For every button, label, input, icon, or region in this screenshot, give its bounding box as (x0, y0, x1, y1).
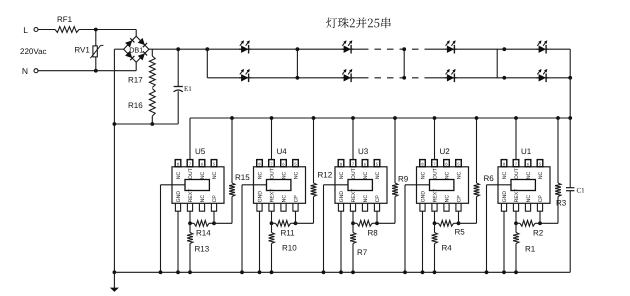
svg-text:OUT: OUT (269, 167, 275, 179)
LED D3b (bottom row) (344, 74, 351, 81)
node: U1 REXT junction (514, 221, 518, 225)
label: title 灯珠2并25串 (326, 17, 391, 28)
U1 pin 3 stub (bottom, NC) (525, 203, 530, 211)
node: U4 REXT junction (270, 221, 274, 225)
svg-text:NC: NC (456, 171, 462, 179)
node ties on LED rails (296, 47, 300, 51)
svg-text:8: 8 (503, 162, 506, 167)
svg-text:REXT: REXT (269, 188, 275, 203)
node: U3 CP junction (375, 221, 379, 225)
svg-text:NC: NC (212, 171, 218, 179)
wire U3 CP pin down (376, 211, 378, 223)
U2 pin 6 stub (top, NC) (444, 160, 450, 167)
svg-text:GND: GND (339, 191, 345, 203)
svg-text:R12: R12 (318, 171, 333, 180)
svg-text:7: 7 (270, 162, 273, 167)
svg-text:GND: GND (502, 191, 508, 203)
wire U1 REXT pin down (515, 211, 517, 223)
svg-text:NC: NC (200, 195, 206, 203)
svg-text:C1: C1 (577, 186, 586, 194)
node: U2 CP junction (457, 221, 461, 225)
U3 pin 5 stub (top, NC) (374, 160, 380, 167)
bridge diode D-left-bottom (anode left vertex, cathode bottom) (125, 51, 132, 58)
svg-text:7: 7 (189, 162, 192, 167)
node: DC- / R16-E1 return junction (113, 122, 117, 126)
wire U4 GND pin to ground rail (259, 211, 261, 272)
wire U4 REXT pin down (271, 211, 273, 223)
svg-text:OUT: OUT (432, 167, 438, 179)
svg-text:NC: NC (444, 171, 450, 179)
U5 pin 3 stub (bottom, NC) (199, 203, 204, 211)
svg-text:NC: NC (444, 195, 450, 203)
wire U3 GND pin to ground rail (340, 211, 342, 272)
wire U2 GND pin to ground rail (422, 211, 424, 272)
wire LED bottom rail (dashed middle) (362, 77, 427, 79)
node: ground rail left end (113, 270, 117, 274)
wire: LED chain vertical tie at x=497.2 (496, 49, 498, 78)
wire U1 REXT feedback (inner box to left drop) (487, 184, 512, 186)
wire LED bottom rail (solid right part) (427, 77, 570, 79)
svg-text:5: 5 (213, 162, 216, 167)
U3 pin 2 stub (bottom, REXT) (350, 203, 355, 211)
resistor R16 (149, 89, 155, 117)
U2 pin 4 stub (bottom, CP) (456, 203, 461, 211)
svg-text:CP: CP (456, 195, 462, 203)
resistor R14 (190, 222, 194, 224)
node: U3 REXT junction (351, 221, 355, 225)
svg-text:R10: R10 (282, 244, 297, 253)
svg-text:8: 8 (177, 162, 180, 167)
svg-text:OUT: OUT (514, 167, 520, 179)
node: U2 REXT junction (433, 221, 437, 225)
node: R15 top on rail (230, 116, 234, 120)
wire U2 OUT pin to rail (434, 118, 436, 160)
svg-text:L: L (23, 25, 28, 35)
svg-text:7: 7 (352, 162, 355, 167)
U2 pin 1 stub (bottom, GND) (420, 203, 425, 211)
svg-text:R8: R8 (368, 229, 379, 238)
capacitor E1 (electrolytic bulk cap) (177, 49, 179, 86)
resistor R5 (435, 222, 439, 224)
node: U1 OUT on rail (514, 116, 518, 120)
U5 pin 7 stub (top, OUT) (187, 160, 193, 167)
wire U3 REXT pin down (352, 211, 354, 223)
U1 pin 6 stub (top, NC) (525, 160, 531, 167)
svg-text:U5: U5 (195, 147, 206, 156)
node: RV1 bottom junction (94, 69, 98, 73)
resistor R15 (to OUT rail) (214, 222, 232, 224)
svg-text:OUT: OUT (188, 167, 194, 179)
svg-text:8: 8 (340, 162, 343, 167)
svg-text:R7: R7 (357, 248, 368, 257)
node: R6 top on rail (475, 116, 479, 120)
op-amp / LED-driver IC U1 (498, 167, 550, 204)
U5 pin 4 stub (bottom, CP) (211, 203, 216, 211)
svg-text:NC: NC (339, 171, 345, 179)
node: right drop joins OUT rail (568, 116, 572, 120)
resistor R7 (REXT to ground) (352, 223, 354, 232)
svg-text:NC: NC (420, 171, 426, 179)
wire U5 OUT pin to rail (189, 118, 191, 160)
svg-text:5: 5 (457, 162, 460, 167)
svg-text:RV1: RV1 (74, 46, 90, 55)
wire N to bridge bottom (38, 70, 136, 72)
wire U1 CP pin down (539, 211, 541, 223)
LED D1a (top row) (241, 46, 248, 53)
wire U4 OUT pin to rail (271, 118, 273, 160)
U2 pin 2 stub (bottom, REXT) (432, 203, 437, 211)
svg-text:REXT: REXT (432, 188, 438, 203)
resistor R3 (to OUT rail) (540, 222, 558, 224)
LED D1b (bottom row) (241, 74, 248, 81)
U3 pin 8 stub (top, NC) (338, 160, 344, 167)
wire U4 REXT feedback (inner box to left drop) (242, 184, 267, 186)
svg-text:N: N (22, 66, 28, 76)
svg-text:220Vac: 220Vac (20, 47, 47, 56)
op-amp / LED-driver IC U5 (172, 167, 224, 204)
svg-text:7: 7 (515, 162, 518, 167)
node: R10 bottom on ground rail (270, 270, 274, 274)
wire L to RF1 (38, 29, 55, 31)
U3 pin 7 stub (top, OUT) (350, 160, 356, 167)
svg-text:R13: R13 (195, 245, 210, 254)
U2 pin 5 stub (top, NC) (456, 160, 462, 167)
wire C1 column lower (569, 191, 571, 272)
svg-text:NC: NC (281, 195, 287, 203)
node: U1 CP junction (538, 221, 542, 225)
svg-text:NC: NC (363, 195, 369, 203)
bridge rectifier DB1 (124, 36, 149, 62)
svg-text:NC: NC (200, 171, 206, 179)
svg-text:6: 6 (527, 162, 530, 167)
U4 pin 1 stub (bottom, GND) (257, 203, 262, 211)
LED D5b (bottom row) (447, 74, 454, 81)
op-amp / LED-driver IC U3 (335, 167, 387, 204)
wire U5 CP pin down (213, 211, 215, 223)
U4 pin 7 stub (top, OUT) (269, 160, 275, 167)
svg-text:NC: NC (281, 171, 287, 179)
node: U4 OUT on rail (270, 116, 274, 120)
wire U2 REXT feedback (inner box to left drop) (405, 184, 430, 186)
node: R3 top on rail (556, 116, 560, 120)
U1 pin 8 stub (top, NC) (501, 160, 507, 167)
resistor RF1 (fuse resistor) (55, 27, 79, 33)
wire LED chain right end down (569, 49, 571, 78)
U2 pin 8 stub (top, NC) (420, 160, 426, 167)
LED D3a (top row) (344, 46, 351, 53)
U5 pin 8 stub (top, NC) (175, 160, 181, 167)
wire U1 OUT pin to rail (515, 118, 517, 160)
svg-text:U1: U1 (521, 147, 532, 156)
U3 pin 1 stub (bottom, GND) (338, 203, 343, 211)
U5 pin 2 stub (bottom, REXT) (187, 203, 192, 211)
wire bridge DC+ (right vertex) to LED chain (149, 48, 207, 50)
wire LED top rail (solid left part) (207, 48, 362, 50)
node: E1 top junction (176, 47, 180, 51)
node: U2 OUT on rail (433, 116, 437, 120)
node: U3 OUT on rail (351, 116, 355, 120)
node: R13 bottom on ground rail (188, 270, 192, 274)
svg-text:NC: NC (375, 171, 381, 179)
svg-text:U3: U3 (358, 147, 369, 156)
op-amp / LED-driver IC U2 (417, 167, 469, 204)
wire U5 REXT feedback (inner box to left drop) (161, 184, 186, 186)
svg-text:U4: U4 (277, 147, 288, 156)
resistor R8 (353, 222, 357, 224)
node: LED chain start junction (205, 47, 209, 51)
resistor R4 (REXT to ground) (434, 223, 436, 232)
svg-text:R4: R4 (442, 244, 453, 253)
wire U3 REXT feedback (inner box to left drop) (324, 184, 349, 186)
svg-text:R15: R15 (235, 173, 250, 182)
wire U2 REXT pin down (434, 211, 436, 223)
svg-text:5: 5 (376, 162, 379, 167)
wire U5 GND pin to ground rail (177, 211, 179, 272)
svg-text:CP: CP (375, 195, 381, 203)
resistor R12 (to OUT rail) (296, 222, 314, 224)
capacitor C1 (566, 187, 574, 189)
U4 pin 2 stub (bottom, REXT) (269, 203, 274, 211)
U3 pin 6 stub (top, NC) (362, 160, 368, 167)
svg-text:OUT: OUT (351, 167, 357, 179)
U4 pin 6 stub (top, NC) (281, 160, 287, 167)
node N (neutral input terminal) (34, 69, 38, 73)
wire C1 column upper (569, 118, 571, 187)
LED D7a (top row) (539, 46, 546, 53)
wire U3 OUT pin to rail (352, 118, 354, 160)
svg-text:6: 6 (282, 162, 285, 167)
node: R1 bottom on ground rail (514, 270, 518, 274)
U1 pin 7 stub (top, OUT) (513, 160, 519, 167)
resistor R2 (516, 222, 520, 224)
resistor R11 (272, 222, 276, 224)
svg-text:NC: NC (502, 171, 508, 179)
wire R16 bottom (151, 116, 153, 124)
svg-text:REXT: REXT (514, 188, 520, 203)
ground symbol (113, 272, 115, 288)
svg-text:R14: R14 (196, 229, 211, 238)
wire: LED chain vertical tie at x=207.3 (206, 49, 208, 78)
svg-text:R11: R11 (281, 229, 296, 238)
wire U1 GND pin to ground rail (503, 211, 505, 272)
bridge diode D-bottom-right (anode bottom vertex, cathode right) (138, 53, 145, 60)
node: R9 top on rail (393, 116, 397, 120)
node: U4 CP junction (294, 221, 298, 225)
svg-text:GND: GND (176, 191, 182, 203)
svg-text:GND: GND (420, 191, 426, 203)
U1 pin 5 stub (top, NC) (537, 160, 543, 167)
svg-text:R6: R6 (484, 174, 495, 183)
svg-text:8: 8 (258, 162, 261, 167)
wire U4 CP pin down (295, 211, 297, 223)
U1 pin 4 stub (bottom, CP) (537, 203, 542, 211)
LED D7b (bottom row) (539, 74, 546, 81)
U2 pin 3 stub (bottom, NC) (444, 203, 449, 211)
wire DC- down to ground rail (113, 124, 115, 272)
svg-text:E1: E1 (184, 85, 192, 93)
resistor R1 (REXT to ground) (515, 223, 517, 232)
svg-text:R16: R16 (128, 101, 143, 110)
resistor R6 (to OUT rail) (459, 222, 477, 224)
node: R4 bottom on ground rail (433, 270, 437, 274)
wire return rail (R16/E1 bottoms to DC-) (114, 123, 178, 125)
svg-text:NC: NC (176, 171, 182, 179)
svg-text:NC: NC (526, 195, 532, 203)
LED D5a (top row) (447, 46, 454, 53)
U3 pin 4 stub (bottom, CP) (374, 203, 379, 211)
U1 pin 2 stub (bottom, REXT) (513, 203, 518, 211)
op-amp / LED-driver IC U4 (254, 167, 306, 204)
svg-text:DB1: DB1 (129, 46, 143, 55)
U4 pin 8 stub (top, NC) (257, 160, 263, 167)
resistor R17 (149, 56, 155, 88)
U5 pin 5 stub (top, NC) (211, 160, 217, 167)
svg-text:R2: R2 (533, 229, 544, 238)
svg-text:CP: CP (538, 195, 544, 203)
U4 pin 5 stub (top, NC) (293, 160, 299, 167)
bridge diode D-left-top (anode left vertex, cathode top) (125, 40, 132, 47)
node: R7 bottom on ground rail (351, 270, 355, 274)
svg-text:NC: NC (526, 171, 532, 179)
svg-text:R9: R9 (398, 175, 409, 184)
U1 pin 1 stub (bottom, GND) (501, 203, 506, 211)
wire LED bottom rail (solid left part) (207, 77, 362, 79)
svg-text:8: 8 (421, 162, 424, 167)
wire ground rail (114, 271, 570, 273)
svg-text:REXT: REXT (188, 188, 194, 203)
node: R16 bottom junction (150, 122, 154, 126)
wire DC+ to R17 (151, 49, 153, 56)
svg-text:6: 6 (445, 162, 448, 167)
U5 pin 1 stub (bottom, GND) (175, 203, 180, 211)
U4 pin 4 stub (bottom, CP) (293, 203, 298, 211)
wire LED top rail (solid right part) (427, 48, 570, 50)
svg-text:5: 5 (294, 162, 297, 167)
svg-text:GND: GND (257, 191, 263, 203)
resistor R13 (REXT to ground) (189, 223, 191, 232)
svg-text:NC: NC (293, 171, 299, 179)
svg-text:CP: CP (293, 195, 299, 203)
svg-text:R3: R3 (556, 199, 567, 208)
svg-text:R17: R17 (128, 75, 143, 84)
svg-text:U2: U2 (440, 147, 451, 156)
node: RV1 top junction (94, 28, 98, 32)
svg-text:7: 7 (433, 162, 436, 167)
wire LED top rail (dashed middle) (362, 48, 427, 50)
node: R12 top on rail (312, 116, 316, 120)
node: U5 CP junction (212, 221, 216, 225)
svg-text:CP: CP (212, 195, 218, 203)
U5 pin 6 stub (top, NC) (199, 160, 205, 167)
svg-text:RF1: RF1 (57, 15, 73, 24)
svg-text:NC: NC (538, 171, 544, 179)
resistor R9 (to OUT rail) (377, 222, 395, 224)
svg-text:R5: R5 (455, 228, 466, 237)
U4 pin 3 stub (bottom, NC) (281, 203, 286, 211)
wire: LED chain vertical tie at x=297.4 (296, 49, 298, 78)
bridge diode D-top-right (anode top vertex, cathode right) (138, 38, 145, 45)
svg-text:REXT: REXT (351, 188, 357, 203)
wire RF1 to bridge top (79, 29, 136, 31)
svg-text:NC: NC (363, 171, 369, 179)
wire U2 CP pin down (458, 211, 460, 223)
wire bridge DC- (left vertex) to ground drop (114, 48, 123, 50)
U2 pin 7 stub (top, OUT) (432, 160, 438, 167)
wire U5 REXT pin down (189, 211, 191, 223)
svg-text:R1: R1 (525, 245, 536, 254)
node: bottom rail joins right drop (568, 76, 572, 80)
varistor RV1 (95, 30, 97, 46)
resistor R10 (REXT to ground) (271, 223, 273, 232)
svg-text:6: 6 (364, 162, 367, 167)
node: U5 REXT junction (188, 221, 192, 225)
svg-text:5: 5 (539, 162, 542, 167)
wire: LED chain vertical tie at x=404.2 (403, 49, 405, 78)
svg-text:NC: NC (257, 171, 263, 179)
U3 pin 3 stub (bottom, NC) (362, 203, 367, 211)
node L (line input terminal) (34, 28, 38, 32)
svg-text:6: 6 (201, 162, 204, 167)
wire OUT rail (LED- to all U OUT pins) (190, 117, 570, 119)
